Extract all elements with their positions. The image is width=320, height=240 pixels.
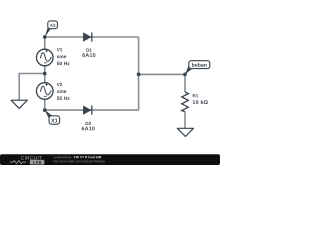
watermark CircuitLab logo xyxy=(10,156,45,164)
wire: node X3 to diode D1 to right corner xyxy=(45,36,139,38)
node label X1 xyxy=(49,116,60,124)
label R1 name xyxy=(193,94,198,97)
label V2 name xyxy=(57,83,62,86)
wire: R1 bottom to right ground xyxy=(184,112,186,129)
flag of node label X1 xyxy=(45,110,53,119)
flag of node label beban xyxy=(185,66,192,74)
junction trunk to middle wire xyxy=(137,73,141,77)
junction at node X3 xyxy=(43,35,47,39)
ground left (center tap) xyxy=(11,100,27,108)
voltage source V2 xyxy=(36,83,53,100)
watermark caption line 1 xyxy=(54,156,102,159)
label V1 value sine xyxy=(57,55,66,59)
ground right (under R1) xyxy=(177,128,193,136)
label V2 value sine xyxy=(57,89,66,93)
watermark bar xyxy=(0,154,220,165)
wire: load node down to resistor R1 xyxy=(184,74,186,92)
node label beban xyxy=(189,61,210,69)
wire: V2 bottom to node X1 xyxy=(44,99,46,110)
wire: node X1 to diode D2 to right corner xyxy=(45,109,139,111)
junction load node xyxy=(183,73,187,77)
flag of node label X3 xyxy=(45,27,51,37)
wire: middle output to load node xyxy=(139,73,185,75)
label V2 value 50 Hz xyxy=(57,96,70,100)
wire: right vertical trunk xyxy=(138,37,140,110)
diode D2 xyxy=(83,106,91,115)
label D1 value 6A10 xyxy=(82,53,95,57)
node label X3 xyxy=(48,21,58,29)
label D2 value 6A10 xyxy=(82,127,95,131)
watermark caption line 2 xyxy=(54,160,105,163)
wire: node X3 down to V1 top xyxy=(44,37,46,50)
wire: center tap junction to left ground xyxy=(19,74,45,101)
resistor R1 xyxy=(182,92,189,112)
voltage source V1 xyxy=(36,49,53,66)
wire: V1 bottom to center tap junction xyxy=(44,66,46,84)
label D1 name xyxy=(86,48,91,51)
junction center tap xyxy=(43,72,47,76)
diode D1 xyxy=(83,33,91,42)
label D2 name xyxy=(86,122,91,125)
label V1 value 50 Hz xyxy=(57,62,70,66)
label R1 value 10 kOhm xyxy=(193,100,208,104)
junction at node X1 xyxy=(43,108,47,112)
label V1 name xyxy=(57,48,62,51)
